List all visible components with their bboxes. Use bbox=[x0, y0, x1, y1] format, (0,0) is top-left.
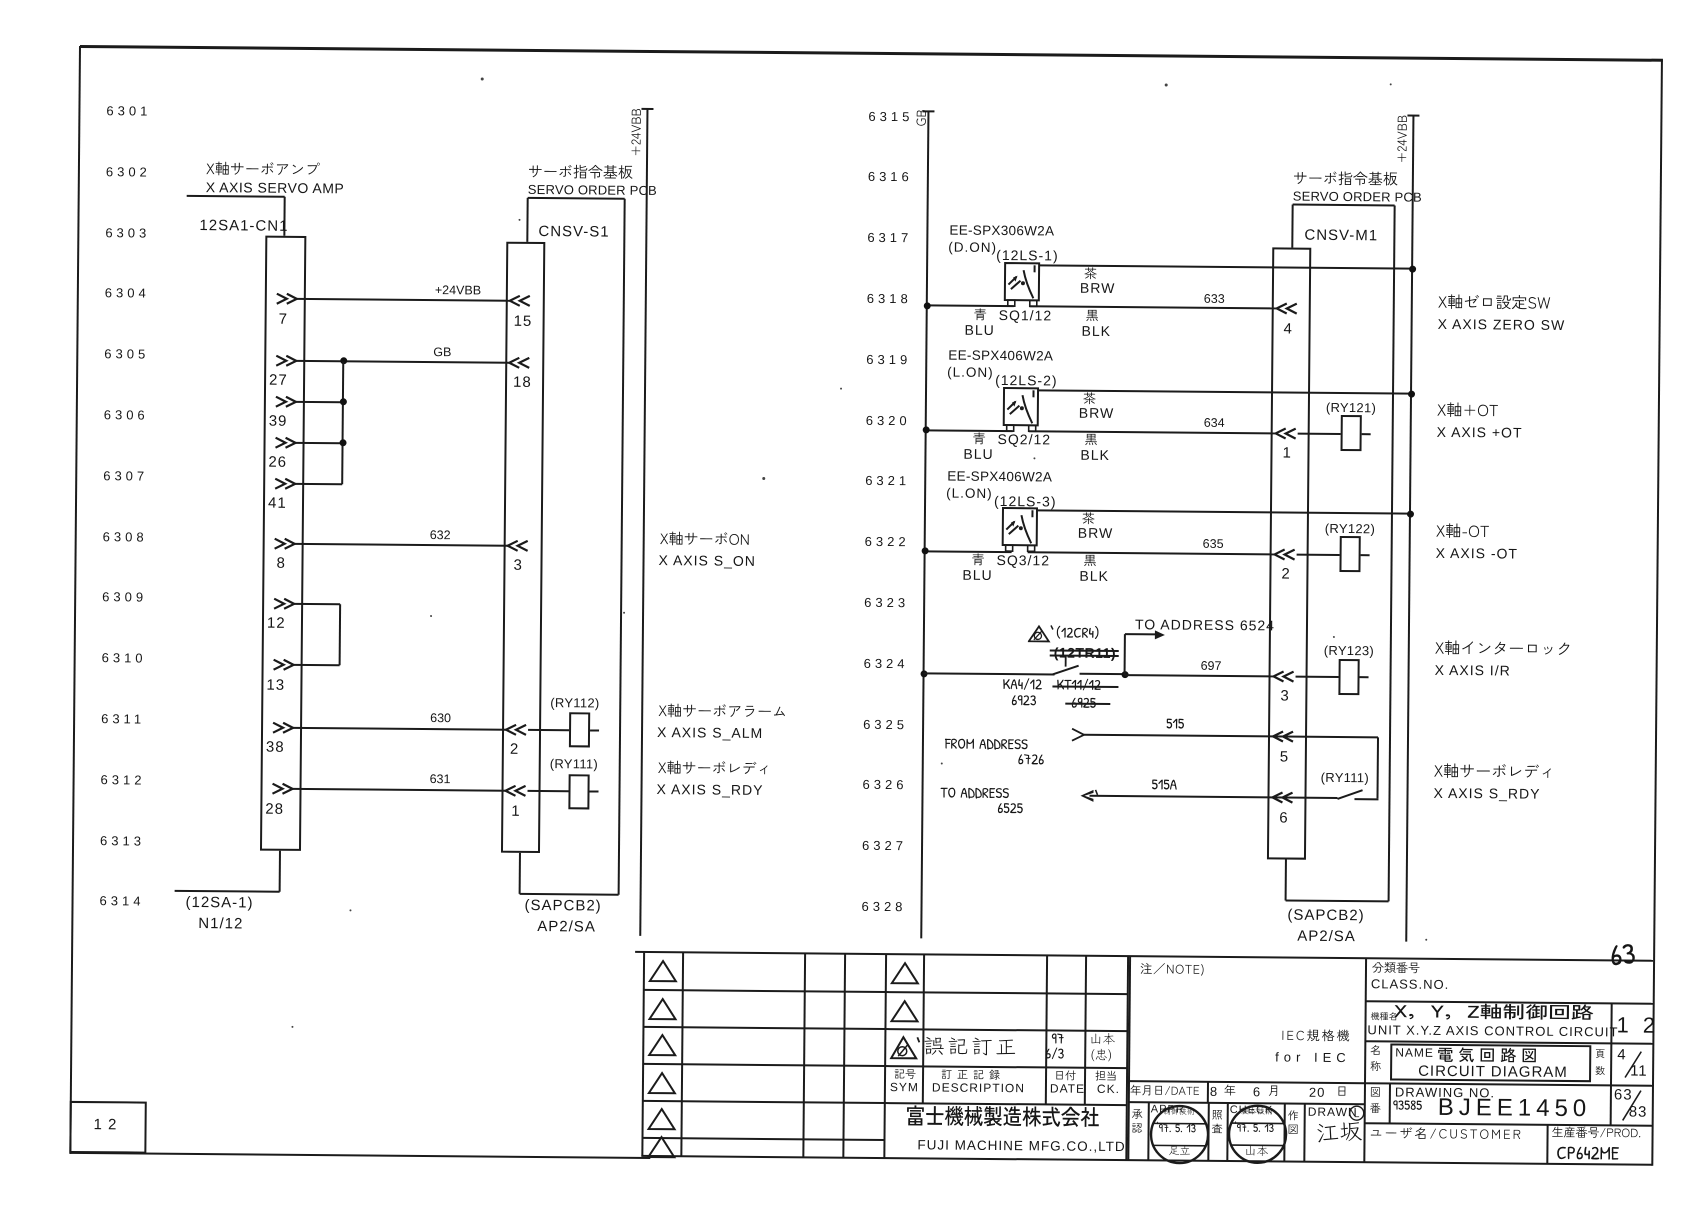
wire CNSV-S1 bottom stub bbox=[519, 853, 521, 894]
label 6525 handwritten bbox=[997, 801, 1027, 821]
servo order PCB outline left leftedge bbox=[526, 198, 528, 242]
model row bottom line bbox=[1365, 1040, 1653, 1045]
grid line number 6318 bbox=[867, 292, 912, 305]
limit switch 12LS-1 mode label (D.ON) bbox=[948, 241, 997, 255]
net label 635 bbox=[1203, 538, 1224, 551]
pin 15 of CNSV-S1 bbox=[508, 295, 533, 308]
label (12TR11) struck out bbox=[1054, 645, 1116, 660]
grid line number 6316 bbox=[868, 170, 913, 183]
lead color label black (SQ3) bbox=[1083, 555, 1100, 573]
wire to address 6524 arrow bbox=[1125, 633, 1157, 635]
contact KA4/12 blade bbox=[1051, 654, 1087, 678]
net +24VBB bus (right) bbox=[1405, 116, 1414, 942]
net label 630 bbox=[430, 712, 451, 725]
pin 13 of 12SA1-CN1 bbox=[273, 659, 298, 672]
label for IEC bbox=[1275, 1050, 1351, 1064]
header SYM cell bbox=[894, 1069, 920, 1084]
net label 634 bbox=[1204, 417, 1225, 430]
lead color label brown (SQ3) bbox=[1082, 513, 1099, 531]
relay RY123 label bbox=[1324, 644, 1374, 657]
grid line number 6321 bbox=[865, 474, 910, 487]
junction 697 at GB bus bbox=[920, 670, 927, 677]
class row bottom line bbox=[1366, 1000, 1654, 1005]
junction to-address tap bbox=[1121, 671, 1128, 678]
wire 697 to CNSV-M1 pin3 bbox=[1125, 674, 1274, 677]
note label bbox=[1140, 963, 1209, 981]
note box left edge bbox=[1127, 956, 1131, 1160]
wire tap vertical to address arrow bbox=[1124, 634, 1126, 675]
revision table 1 verticals bbox=[641, 952, 645, 1156]
wire GB bus to SQ2 blue lead bbox=[926, 429, 1013, 432]
label 6923 handwritten bbox=[1011, 693, 1040, 713]
label KT11/12 struck out bbox=[1056, 678, 1105, 698]
net label 697 bbox=[1201, 660, 1222, 673]
wire 515A to RY111 contact bbox=[1089, 795, 1337, 799]
junction pin39 tie bbox=[339, 398, 346, 405]
wire RY112 right stub bbox=[590, 729, 599, 731]
label X axis servo amp (Japanese) bbox=[206, 162, 324, 183]
switch designator SQ2/12 bbox=[998, 432, 1052, 446]
drawing row bottom line bbox=[1365, 1122, 1653, 1127]
wire CNSV-M1 bottom rail bbox=[1286, 900, 1389, 903]
pin 7 of 12SA1-CN1 bbox=[276, 293, 301, 306]
relay contact RY111 blade bbox=[1333, 783, 1383, 803]
page fraction 4/11 bbox=[1617, 1047, 1626, 1062]
pin 12 of 12SA1-CN1 bbox=[273, 597, 298, 610]
lead color label brown (SQ1) bbox=[1084, 268, 1101, 286]
grid line number 6324 bbox=[864, 657, 909, 670]
net label GB (right, vertical) bbox=[915, 109, 933, 126]
grid line number 6304 bbox=[105, 287, 150, 300]
connector 12SA1-CN1 body bbox=[260, 236, 306, 851]
label 6925 struck out bbox=[1071, 696, 1100, 716]
label SERVO ORDER PCB right bbox=[1293, 190, 1422, 204]
label NAME bbox=[1395, 1046, 1434, 1058]
pin 3 of CNSV-S1 bbox=[506, 539, 531, 552]
page border bottom bbox=[70, 1152, 650, 1160]
grid line number 6308 bbox=[103, 530, 148, 543]
wire 515 incoming open arrow bbox=[1070, 727, 1086, 743]
label (SAPCB2) right bbox=[1287, 908, 1364, 924]
scan speckles bbox=[481, 77, 484, 80]
label KA4/12 handwritten bbox=[1002, 677, 1046, 697]
grid line number 6303 bbox=[105, 226, 150, 239]
name row label vertical bbox=[1370, 1045, 1385, 1060]
wire 634 SQ2 to CNSV-M1 pin1 bbox=[1029, 430, 1276, 434]
stamp circle 1 approval bbox=[1148, 1103, 1211, 1166]
annotation X axis zero set SW bbox=[1438, 295, 1555, 318]
wire SQ3 top to +24VBB bus bbox=[1037, 509, 1410, 514]
title denki kairozu bbox=[1437, 1048, 1546, 1071]
junction SQ2 at GB bus bbox=[922, 426, 929, 433]
lead color label BRW (SQ3) bbox=[1078, 526, 1114, 540]
grid line number 6307 bbox=[103, 469, 148, 482]
date row top line bbox=[1129, 1080, 1365, 1084]
pin 26 of 12SA1-CN1 bbox=[274, 436, 299, 449]
label IEC kikakuki bbox=[1281, 1029, 1355, 1048]
strike lines over (12TR11) bbox=[1050, 649, 1119, 652]
page label vertical bbox=[1595, 1049, 1609, 1063]
net +24VBB bus (left) bbox=[639, 109, 648, 936]
grid line number 6326 bbox=[863, 778, 908, 791]
drawing row label vertical bbox=[1370, 1087, 1385, 1102]
class no row bbox=[1372, 962, 1424, 978]
label (SAPCB2) left bbox=[524, 898, 601, 914]
junction SQ1 top at +24VBB bus bbox=[1409, 265, 1416, 272]
label AP2/SA left bbox=[537, 919, 596, 935]
wire RY111 right stub (left) bbox=[590, 790, 599, 792]
annotation X AXIS S_ON bbox=[658, 553, 755, 568]
wire 515 to CNSV-M1 pin5 bbox=[1083, 734, 1378, 739]
drawn by Esaka handwritten bbox=[1316, 1123, 1366, 1154]
wire loop vertical pin12-pin13 bbox=[339, 604, 342, 666]
annotation X axis servo ON bbox=[660, 532, 754, 553]
stamps row top line bbox=[1129, 1101, 1365, 1105]
name row divider bbox=[1610, 1043, 1612, 1085]
handwritten page 63 top right bbox=[1611, 941, 1640, 981]
header CK cell bbox=[1095, 1071, 1121, 1086]
revision table 2 right edge bbox=[1125, 956, 1129, 1160]
limit switch 12LS-3 type label EE-SPX406W2A bbox=[947, 470, 1052, 484]
stamp APPR label bbox=[1151, 1104, 1185, 1115]
wire 632 pin8 to CNSV-S1 pin3 bbox=[295, 542, 508, 546]
grid line number 6327 bbox=[862, 839, 907, 852]
limit switch 12LS-2 type label EE-SPX406W2A bbox=[948, 349, 1053, 363]
stamp col dividers bbox=[1147, 1102, 1150, 1160]
limit switch SQ2/12 body bbox=[999, 383, 1045, 439]
revision table 1 horizontals bbox=[643, 989, 885, 993]
wire 515A left arrowhead bbox=[1079, 789, 1099, 805]
wire pin26 to GB tie bbox=[296, 441, 343, 443]
lead color label BLU (SQ1) bbox=[964, 323, 994, 337]
grid line number 6306 bbox=[104, 408, 149, 421]
revision table 2 inner verticals bbox=[921, 954, 924, 1103]
page number box bbox=[69, 1101, 146, 1154]
wire pin41 to GB tie bbox=[295, 482, 342, 484]
servo order PCB outline right rightedge bbox=[1388, 205, 1396, 901]
customer row divider bbox=[1546, 1125, 1548, 1164]
wire RY122 right stub bbox=[1361, 554, 1370, 556]
net label +24VBB on wire bbox=[435, 284, 481, 297]
label TO ADDRESS handwritten bbox=[940, 786, 1013, 807]
relay RY111 label (left) bbox=[550, 757, 598, 770]
revision date 97 6/3 handwritten bbox=[1051, 1031, 1068, 1051]
annotation X AXIS S_RDY (right) bbox=[1433, 786, 1540, 801]
company name Japanese bbox=[906, 1106, 1104, 1138]
grid line number 6315 bbox=[868, 109, 913, 122]
grid line number 6328 bbox=[861, 900, 906, 913]
connector name 12SA1-CN1 bbox=[199, 218, 288, 234]
limit switch 12LS-1 name bbox=[996, 248, 1059, 263]
label servo order PCB (Japanese) left bbox=[528, 165, 637, 186]
note box right edge bbox=[1363, 958, 1367, 1162]
grid line number 6314 bbox=[99, 895, 144, 908]
wire pin39 to GB tie bbox=[296, 400, 343, 402]
limit switch SQ3/12 body bbox=[998, 503, 1044, 559]
wire RY123 right stub bbox=[1360, 676, 1369, 678]
lead color label BRW (SQ1) bbox=[1080, 281, 1116, 295]
grid line number 6305 bbox=[104, 347, 149, 360]
page border top bbox=[80, 44, 1663, 61]
grid line number 6311 bbox=[101, 712, 145, 725]
lead color label BLK (SQ1) bbox=[1081, 324, 1111, 338]
drawing number BJEE1450 bbox=[1438, 1096, 1592, 1121]
wire SQ1 top to +24VBB bus bbox=[1039, 264, 1412, 269]
annotation X axis servo ready (left) bbox=[658, 761, 776, 782]
strike line over KT11/12 bbox=[1052, 685, 1118, 688]
annotation X AXIS I/R bbox=[1435, 663, 1511, 678]
grid line number 6313 bbox=[100, 834, 145, 847]
connector CNSV-M1 body bbox=[1267, 247, 1311, 859]
annotation X AXIS S_RDY (left) bbox=[656, 782, 763, 797]
revision mark triangle-zero in table bbox=[889, 1034, 921, 1061]
net label +24VBB (right, vertical) bbox=[1396, 114, 1414, 163]
revision table 2 horizontals bbox=[885, 991, 1127, 995]
pin 28 of 12SA1-CN1 bbox=[271, 783, 296, 796]
wire RY121 right stub bbox=[1362, 433, 1371, 435]
lead color label brown (SQ2) bbox=[1083, 393, 1100, 411]
wire 12SA1 bottom rail bbox=[175, 890, 280, 893]
label prod no bbox=[1551, 1127, 1645, 1144]
relay RY111 coil (left) bbox=[568, 774, 589, 809]
wire pin12 loop bbox=[294, 602, 340, 604]
label DRAWN bbox=[1308, 1106, 1358, 1118]
label FROM ADDRESS handwritten bbox=[945, 737, 1032, 758]
wire 12SA1-CN1 bottom stub bbox=[279, 851, 281, 892]
net label 515 handwritten bbox=[1166, 716, 1188, 736]
pin 4 of CNSV-M1 bbox=[1275, 303, 1300, 316]
pin 8 of 12SA1-CN1 bbox=[274, 537, 299, 550]
wire CNSV-M1 pin2 to relay RY122 bbox=[1297, 553, 1340, 555]
revision triangle mark (12CR4) bbox=[1028, 624, 1054, 644]
pin 5 of CNSV-M1 bbox=[1271, 730, 1296, 743]
revision table 2 left edge bbox=[883, 954, 887, 1158]
date row value 8 6 20 bbox=[1210, 1085, 1218, 1098]
grid line number 6301 bbox=[106, 104, 151, 117]
annotation X axis servo alarm bbox=[658, 704, 791, 725]
connector name CNSV-M1 bbox=[1304, 228, 1378, 244]
wire GB pin27 to CNSV-S1 pin18 bbox=[296, 359, 509, 363]
label N1/12 bbox=[198, 916, 243, 931]
label (12CR4) bbox=[1056, 626, 1104, 646]
lead color label blue (SQ1) bbox=[974, 309, 991, 327]
wire GB tie vertical bbox=[341, 361, 344, 484]
limit switch 12LS-3 mode label (L.ON) bbox=[946, 487, 993, 501]
label (12SA-1) bbox=[185, 895, 253, 911]
wire CNSV-S1 pin1 to relay RY111 left bbox=[528, 790, 569, 792]
label approval vertical bbox=[1132, 1109, 1147, 1124]
drawing row left divider bbox=[1389, 1083, 1391, 1123]
annotation X axis -OT bbox=[1436, 524, 1494, 547]
servo order PCB outline left top bbox=[528, 197, 625, 200]
relay RY112 label bbox=[550, 696, 599, 709]
date row divider bbox=[1207, 1082, 1209, 1103]
model row divider bbox=[1610, 1003, 1612, 1043]
junction SQ3 at GB bus bbox=[921, 547, 928, 554]
grid line number 6319 bbox=[866, 353, 911, 366]
pin 6 of CNSV-M1 bbox=[1270, 791, 1295, 804]
net label 631 bbox=[430, 773, 451, 786]
stamp circle 2 checked bbox=[1226, 1103, 1289, 1166]
limit switch SQ1/12 body bbox=[1000, 258, 1046, 314]
sheet fraction 63/83 bbox=[1614, 1087, 1633, 1102]
company name FUJI MACHINE MFG CO LTD bbox=[917, 1138, 1125, 1153]
wire GB bus to SQ3 blue lead bbox=[925, 550, 1012, 553]
wire CNSV-S1 pin2 to relay RY112 bbox=[528, 728, 569, 730]
name row bottom line bbox=[1365, 1082, 1653, 1087]
label AP2/SA right bbox=[1297, 929, 1356, 945]
servo order PCB outline right leftedge bbox=[1291, 205, 1293, 248]
pin 1 of CNSV-M1 bbox=[1274, 427, 1299, 440]
grid line number 6323 bbox=[864, 596, 909, 609]
wire CNSV-M1 pin1 to relay RY121 bbox=[1298, 432, 1341, 434]
label DRAWING NO. bbox=[1395, 1085, 1495, 1099]
relay RY121 label bbox=[1326, 401, 1376, 414]
relay RY112 coil bbox=[569, 712, 590, 747]
junction pin26 tie bbox=[339, 439, 346, 446]
revision table 1 triangles bbox=[648, 959, 678, 984]
drawing row divider bbox=[1610, 1085, 1612, 1125]
limit switch 12LS-3 name bbox=[994, 494, 1057, 509]
limit switch 12LS-2 mode label (L.ON) bbox=[947, 366, 994, 380]
wire GB bus to contact KA4/12 bbox=[924, 672, 1055, 675]
annotation X AXIS +OT bbox=[1437, 425, 1523, 440]
label X AXIS SERVO AMP bbox=[206, 180, 345, 195]
relay RY122 coil bbox=[1339, 536, 1360, 572]
handwritten CP642ME bbox=[1556, 1144, 1623, 1171]
wire SQ2 top to +24VBB bus bbox=[1038, 389, 1411, 394]
annotation X AXIS -OT bbox=[1436, 546, 1518, 561]
pin 2 of CNSV-S1 bbox=[504, 723, 529, 736]
header DATE cell bbox=[1054, 1071, 1080, 1086]
grid line number 6309 bbox=[102, 591, 147, 604]
sheet number 12 bbox=[1616, 1014, 1659, 1036]
lead color label blue (SQ3) bbox=[971, 554, 988, 572]
lead color label BLK (SQ3) bbox=[1079, 569, 1109, 583]
svg-text:L: L bbox=[1354, 1109, 1360, 1120]
revision note gokiteisei handwritten bbox=[923, 1036, 1023, 1065]
net label 515A handwritten bbox=[1151, 777, 1180, 797]
grid line number 6317 bbox=[867, 231, 912, 244]
junction SQ3 top at +24VBB bus bbox=[1406, 510, 1413, 517]
lead color label BLU (SQ2) bbox=[963, 447, 993, 461]
title CIRCUIT DIAGRAM bbox=[1418, 1064, 1568, 1080]
page border right bbox=[1651, 60, 1663, 1166]
wire +24VBB pin7 to CNSV-S1 pin15 bbox=[297, 298, 510, 302]
net label +24VBB (left, vertical) bbox=[630, 108, 648, 157]
wire GB bus to SQ1 blue lead bbox=[927, 305, 1014, 308]
pin 3 of CNSV-M1 bbox=[1271, 670, 1296, 683]
net GB bus (right) bbox=[920, 111, 929, 938]
label drawn vertical bbox=[1288, 1111, 1303, 1126]
lead color label blue (SQ2) bbox=[973, 433, 990, 451]
lead color label BLK (SQ2) bbox=[1080, 448, 1110, 462]
page border left bbox=[69, 46, 81, 1154]
net label 633 bbox=[1204, 293, 1225, 306]
date row label bbox=[1130, 1085, 1204, 1102]
label TO ADDRESS 6524 bbox=[1135, 617, 1275, 632]
page number 12 bbox=[94, 1117, 118, 1132]
title block bottom line bbox=[641, 1155, 1652, 1166]
net label GB on wire bbox=[433, 346, 451, 359]
label SERVO ORDER PCB left bbox=[528, 183, 657, 197]
wire CNSV-M1 pin3 to relay RY123 bbox=[1296, 675, 1339, 677]
wire 630 pin38 to CNSV-S1 pin2 bbox=[293, 726, 506, 730]
pin 41 of 12SA1-CN1 bbox=[274, 477, 299, 490]
lead color label BRW (SQ2) bbox=[1079, 406, 1115, 420]
switch designator SQ1/12 bbox=[999, 308, 1053, 322]
pin 38 of 12SA1-CN1 bbox=[272, 721, 297, 734]
pin 2 of CNSV-M1 bbox=[1273, 548, 1298, 561]
wire 635 SQ3 to CNSV-M1 pin2 bbox=[1028, 551, 1275, 555]
pin 27 of 12SA1-CN1 bbox=[275, 354, 300, 367]
annotation X axis +OT bbox=[1437, 403, 1503, 426]
grid line number 6325 bbox=[863, 717, 908, 730]
grid line number 6310 bbox=[102, 651, 147, 664]
connector CNSV-S1 body bbox=[501, 242, 545, 853]
lead color label black (SQ1) bbox=[1086, 310, 1103, 328]
switch designator SQ3/12 bbox=[996, 553, 1050, 567]
relay contact RY111 label (right) bbox=[1321, 771, 1369, 784]
pin 18 of CNSV-S1 bbox=[507, 356, 532, 369]
label 6726 handwritten bbox=[1018, 752, 1048, 772]
header DESCRIPTION cell bbox=[941, 1070, 1009, 1086]
servo order PCB outline right top bbox=[1293, 204, 1395, 207]
name row inner box bbox=[1390, 1043, 1591, 1082]
wire 515 corner vertical to RY111 contact bbox=[1376, 737, 1379, 798]
relay RY121 coil bbox=[1341, 415, 1362, 451]
strike line over 6925 bbox=[1065, 702, 1110, 705]
wire pin13 loop bbox=[294, 664, 340, 666]
pin 39 of 12SA1-CN1 bbox=[275, 395, 300, 408]
lead color label BLU (SQ3) bbox=[962, 568, 992, 582]
connector name CNSV-S1 bbox=[538, 224, 609, 240]
net label 632 bbox=[430, 529, 451, 542]
customer row bbox=[1369, 1127, 1526, 1146]
label bracket for servo amp bbox=[187, 195, 285, 198]
junction GB tie bbox=[340, 357, 347, 364]
servo order PCB outline left rightedge bbox=[618, 199, 626, 895]
model row bbox=[1371, 1012, 1402, 1024]
label check vertical bbox=[1212, 1110, 1227, 1125]
grid line number 6322 bbox=[865, 535, 910, 548]
revision table 2 triangles bbox=[890, 961, 920, 986]
relay RY123 coil bbox=[1338, 659, 1359, 695]
wire contact to junction bbox=[1080, 673, 1125, 675]
wire 633 SQ1 to CNSV-M1 pin4 bbox=[1030, 306, 1277, 310]
handwritten 93585 bbox=[1393, 1098, 1426, 1117]
pin 1 of CNSV-S1 bbox=[503, 785, 528, 798]
annotation X axis servo ready (right) bbox=[1434, 764, 1560, 787]
annotation X AXIS ZERO SW bbox=[1438, 317, 1566, 332]
wire CNSV-M1 bottom stub bbox=[1285, 860, 1287, 901]
grid line number 6312 bbox=[101, 773, 146, 786]
wire 631 pin28 to CNSV-S1 pin1 bbox=[293, 788, 506, 792]
title block top line bbox=[635, 951, 1653, 962]
limit switch 12LS-1 type label EE-SPX306W2A bbox=[949, 224, 1054, 238]
grid line number 6302 bbox=[106, 165, 151, 178]
revision by Yamamoto handwritten bbox=[1089, 1033, 1119, 1051]
lead color label black (SQ2) bbox=[1084, 434, 1101, 452]
annotation X axis interlock bbox=[1435, 641, 1577, 664]
limit switch 12LS-2 name bbox=[995, 373, 1058, 388]
junction SQ1 at GB bus bbox=[923, 302, 930, 309]
annotation X AXIS S_ALM bbox=[657, 725, 763, 740]
grid line number 6320 bbox=[866, 413, 911, 426]
label servo order PCB (Japanese) right bbox=[1293, 172, 1402, 193]
junction SQ2 top at +24VBB bus bbox=[1407, 390, 1414, 397]
wire CNSV-S1 bottom rail bbox=[520, 893, 619, 896]
